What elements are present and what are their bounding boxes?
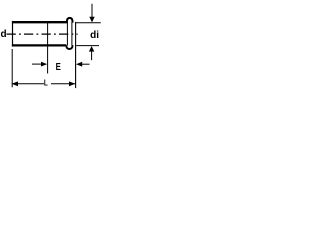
svg-text:E: E <box>56 61 61 72</box>
svg-text:d: d <box>1 29 7 40</box>
svg-text:di: di <box>90 30 99 41</box>
svg-text:L: L <box>44 78 48 88</box>
